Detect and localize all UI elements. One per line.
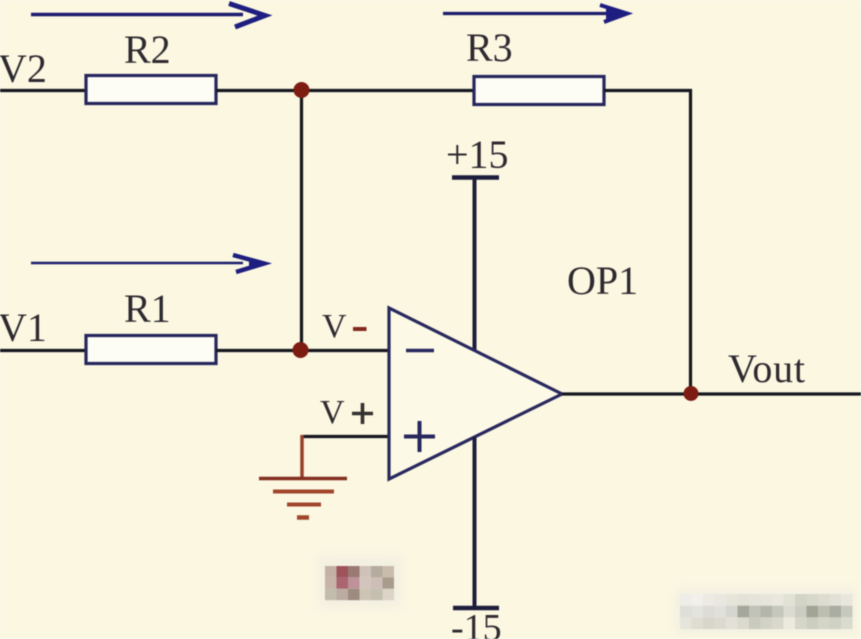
- wire R1 to V- input: [216, 349, 389, 352]
- svg-text:R1: R1: [124, 286, 171, 331]
- current arrow A2 (above R1): [31, 255, 265, 272]
- node A junction dot (R2/R3/V-): [294, 82, 310, 98]
- wire V+ input: [302, 435, 389, 438]
- svg-text:V: V: [320, 394, 345, 431]
- svg-text:V: V: [322, 308, 347, 345]
- current arrow A1 (top-left): [31, 4, 265, 28]
- current arrow A3 (top-right, above R3): [443, 5, 629, 22]
- -15 supply bar: [453, 606, 499, 611]
- op-amp minus input sign: [406, 349, 434, 353]
- wire V1 input: [0, 349, 86, 352]
- output wire Vout: [562, 392, 861, 395]
- svg-text:R2: R2: [124, 27, 171, 72]
- ground: [259, 479, 347, 518]
- resistor R3: [474, 77, 604, 105]
- op-amp U1 triangle: [389, 308, 562, 479]
- wire R2 to R3: [216, 89, 474, 92]
- svg-text:OP1: OP1: [567, 258, 638, 303]
- wire +15 to op-amp top: [473, 178, 477, 353]
- op-amp plus input sign: [404, 421, 435, 452]
- wire node A down to V- node: [300, 90, 303, 350]
- watermark mosaic (gray, bottom-right): [676, 589, 856, 634]
- resistor R1: [86, 336, 216, 364]
- ground wire (red): [300, 435, 304, 478]
- node B junction dot (R1/V-): [293, 342, 309, 358]
- resistor R2: [86, 76, 216, 104]
- wire R3 to output corner: [604, 91, 691, 394]
- watermark mosaic (red, bottom-center): [318, 556, 402, 608]
- svg-text:R3: R3: [466, 25, 513, 70]
- svg-text:-15: -15: [451, 607, 502, 639]
- node C junction dot (output/R3): [684, 386, 699, 401]
- svg-text:V1: V1: [0, 305, 47, 350]
- +15 supply bar: [452, 175, 499, 180]
- svg-text:Vout: Vout: [728, 346, 806, 391]
- svg-text:+15: +15: [446, 132, 509, 177]
- wire -15 from op-amp bottom: [473, 437, 477, 607]
- svg-text:V2: V2: [0, 46, 47, 91]
- wire V2 input: [0, 89, 86, 92]
